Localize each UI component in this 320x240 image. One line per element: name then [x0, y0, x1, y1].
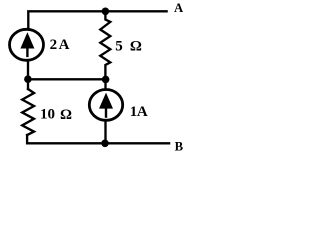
svg-text:2: 2 — [50, 37, 58, 53]
svg-text:A: A — [137, 104, 148, 120]
svg-text:5: 5 — [115, 38, 123, 54]
svg-text:Ω: Ω — [130, 38, 142, 54]
svg-text:A: A — [174, 1, 184, 15]
svg-text:Ω: Ω — [60, 107, 72, 123]
svg-text:10: 10 — [40, 106, 55, 122]
svg-text:A: A — [59, 37, 70, 53]
svg-text:B: B — [175, 139, 184, 153]
